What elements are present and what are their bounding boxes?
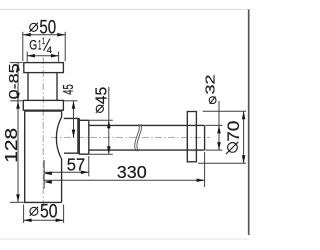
dim 330: dimension line (44, 179, 205, 181)
dim d70: dimension line (243, 111, 245, 163)
dim d50 top: dimension line (23, 34, 65, 36)
dim d32: arrows (217, 125, 221, 133)
dim d50 top: text (30, 17, 57, 39)
svg-text:1: 1 (38, 38, 41, 53)
outlet nut (79, 120, 89, 154)
dim 330: left extension (43, 160, 45, 189)
svg-text:0-85: 0-85 (6, 63, 22, 99)
top flange (24, 63, 64, 73)
svg-text:4: 4 (47, 45, 52, 56)
dim G1-1/4: dimension line (27, 55, 59, 57)
left chain: extension line at body bottom (10, 201, 24, 203)
outlet socket (64, 118, 80, 154)
dim 0-85: arrows (16, 63, 20, 71)
dim 330: arrows (44, 180, 52, 184)
svg-text:45: 45 (61, 84, 77, 94)
top nut (23, 100, 63, 110)
dim 57: dimension line (44, 171, 89, 173)
trap body cylinder (25, 111, 62, 202)
tailpiece tube (27, 73, 29, 101)
border frame top (0, 8, 249, 10)
dim 45: extension line at nut top right (64, 100, 78, 102)
dim 330: right extension (204, 152, 206, 187)
svg-text:1: 1 (42, 36, 45, 47)
dim d70: extension lines (203, 110, 246, 112)
dim 45: dimension line (73, 101, 75, 138)
border frame right (248, 9, 250, 235)
dim d70: diameter symbol (228, 143, 238, 153)
dim d50 bottom: arrows (24, 218, 32, 222)
dim d32: diameter symbol (209, 97, 216, 104)
svg-text:57: 57 (67, 154, 86, 174)
dim d50 top: arrows (23, 33, 31, 37)
svg-text:128: 128 (1, 128, 21, 163)
svg-text:330: 330 (117, 162, 147, 182)
dim G1-1/4: extension lines (26, 52, 28, 62)
dim d50 top: extension lines (22, 32, 24, 61)
dim G1-1/4: arrows (27, 54, 35, 58)
dim 128: arrows (16, 101, 20, 109)
dim d50 bottom: dimension line (24, 219, 64, 221)
svg-text:45: 45 (94, 86, 111, 104)
dim d50 bottom: extension lines (23, 205, 25, 224)
dim d45: arrows (107, 120, 111, 128)
left chain: extension line at flange top (10, 62, 23, 64)
dim d50 bottom: text (30, 201, 58, 223)
dim 45: arrows (72, 101, 76, 109)
left chain: extension line at nut top (10, 100, 22, 102)
svg-text:70: 70 (224, 121, 243, 142)
dim d70: arrows (242, 111, 246, 119)
dim d45: dimension line (108, 87, 110, 154)
dim d32: extension lines (206, 124, 223, 126)
pipe break squiggle (135, 124, 142, 151)
svg-text:G: G (29, 38, 37, 53)
dim 57: extension line right (88, 156, 90, 176)
dim G1-1/4: text (29, 36, 52, 56)
dim d45: diameter symbol (96, 105, 103, 112)
horizontal pipe (89, 125, 205, 150)
ball joint arc (56, 118, 61, 159)
svg-text:32: 32 (202, 75, 217, 95)
centerline horizontal (pipe axis) (51, 137, 210, 139)
wall flange (187, 112, 196, 162)
svg-text:50: 50 (40, 201, 58, 223)
dim 0-85: dimension line (17, 63, 19, 101)
dim d32: dimension line (218, 101, 220, 150)
dim 57: arrows (44, 172, 52, 176)
border frame bottom (0, 238, 249, 240)
dim 128: dimension line (17, 101, 19, 203)
centerline vertical (trap axis) (42, 57, 44, 207)
dim d45: extension lines (89, 119, 113, 121)
